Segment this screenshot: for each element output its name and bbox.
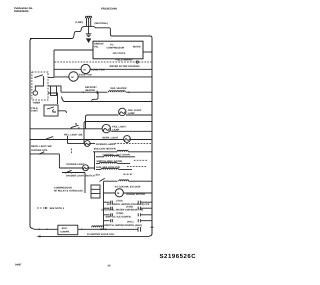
wire timer to defrost feeder bbox=[48, 86, 61, 92]
left bus wire bbox=[30, 39, 72, 229]
svg-text:TIMER: TIMER bbox=[33, 101, 41, 104]
dashed field wiring separator bbox=[55, 61, 137, 63]
wire cold control stub bbox=[58, 111, 66, 113]
svg-text:LAMP: LAMP bbox=[112, 128, 119, 131]
see note arrow bbox=[37, 207, 65, 210]
svg-text:5995396265: 5995396265 bbox=[14, 10, 29, 13]
svg-text:FRS26ZGHW: FRS26ZGHW bbox=[101, 8, 118, 11]
svg-text:(LINE): (LINE) bbox=[76, 21, 83, 24]
svg-text:WHITE: WHITE bbox=[133, 45, 141, 48]
svg-text:20: 20 bbox=[108, 265, 111, 268]
defrost heater row bbox=[61, 86, 152, 94]
dispenser master switch bbox=[100, 178, 105, 181]
svg-text:M: M bbox=[71, 76, 73, 79]
actuator row bbox=[104, 180, 153, 182]
heater coil cluster bbox=[96, 153, 148, 176]
wire evap fan row bbox=[48, 76, 152, 79]
svg-text:AUX.: AUX. bbox=[62, 227, 68, 230]
wire lamp feed vertical bbox=[86, 115, 88, 129]
svg-text:M: M bbox=[84, 68, 86, 71]
ground bbox=[86, 26, 92, 43]
divider lamp row bbox=[68, 143, 96, 145]
cold control box bbox=[31, 105, 58, 116]
divider light row bbox=[59, 167, 94, 169]
svg-text:ACTUATOR, ICE DISP.: ACTUATOR, ICE DISP. bbox=[115, 185, 141, 188]
svg-text:LAMP: LAMP bbox=[128, 112, 135, 115]
svg-text:MULLION HEATER: MULLION HEATER bbox=[94, 147, 116, 150]
node: vertical feeder x54 bbox=[53, 50, 55, 77]
svg-text:S2196526C: S2196526C bbox=[160, 253, 197, 260]
evaporator fan motor bbox=[69, 72, 78, 81]
timer contact bbox=[35, 75, 44, 79]
water valve coil bbox=[92, 226, 104, 228]
divider light switch row bbox=[62, 170, 85, 173]
svg-text:M: M bbox=[117, 192, 119, 195]
svg-text:W/ RELAY & OVERLOAD: W/ RELAY & OVERLOAD bbox=[54, 189, 83, 192]
divider light lamp bbox=[83, 165, 89, 171]
refr light switch bbox=[46, 137, 53, 139]
power cord plug bbox=[85, 16, 93, 26]
svg-text:EVAP. FAN: EVAP. FAN bbox=[79, 74, 92, 77]
bottom row 1 wire bbox=[33, 228, 139, 229]
freezer light switch bbox=[71, 124, 78, 128]
bottom row 2 wire bbox=[40, 235, 150, 237]
divider heater switch row bbox=[30, 153, 59, 155]
svg-text:(YEL): (YEL) bbox=[127, 220, 134, 223]
svg-text:SWITCH, ICE DISPEN.: SWITCH, ICE DISPEN. bbox=[106, 215, 132, 218]
svg-text:COMPR.: COMPR. bbox=[60, 230, 70, 233]
right bus wire bbox=[150, 39, 153, 236]
svg-text:HEATER: HEATER bbox=[85, 89, 95, 92]
svg-text:DEF. HEATER: DEF. HEATER bbox=[111, 87, 127, 90]
freezer light lamp row bbox=[87, 114, 152, 116]
divider lamp bbox=[84, 141, 90, 147]
svg-text:CONT.: CONT. bbox=[31, 110, 39, 113]
svg-text:AUGER MOTOR: AUGER MOTOR bbox=[126, 193, 145, 196]
freezer light lamp 2 bbox=[102, 124, 110, 132]
refr light lamp bbox=[124, 136, 131, 143]
node vertical x85 bbox=[84, 173, 86, 194]
node vertical x67.5 bbox=[67, 136, 69, 144]
wire defrost termination row bbox=[62, 97, 153, 102]
wire cond fan row bbox=[54, 68, 152, 70]
wire: plug left prong to left bus bbox=[30, 26, 85, 38]
svg-text:FIELD WIRING: FIELD WIRING bbox=[116, 59, 133, 62]
auger motor row bbox=[104, 192, 153, 194]
svg-text:115 VOLTS: 115 VOLTS bbox=[113, 52, 126, 55]
svg-text:REFR. LIGHT: REFR. LIGHT bbox=[103, 137, 119, 140]
wire: plug right prong to right bus bbox=[93, 26, 152, 39]
node vertical x94.5 bbox=[94, 152, 96, 170]
svg-text:04/97: 04/97 bbox=[15, 264, 22, 267]
dispenser feeder vertical bbox=[103, 182, 105, 230]
freezer light switch row bbox=[30, 129, 152, 132]
svg-text:SEE NOTE 3: SEE NOTE 3 bbox=[50, 207, 65, 210]
defrost thermostat bbox=[92, 92, 98, 101]
svg-text:SWITCH, WATER DISPEN. (BLK): SWITCH, WATER DISPEN. (BLK) bbox=[104, 224, 142, 227]
svg-text:S10: S10 bbox=[96, 174, 101, 177]
svg-text:1/4 WATER VALVE SOL.: 1/4 WATER VALVE SOL. bbox=[87, 233, 115, 236]
svg-text:(NEUTRAL): (NEUTRAL) bbox=[95, 22, 109, 25]
svg-text:COND. FAN: COND. FAN bbox=[91, 69, 105, 72]
svg-text:DIVIDER LIGHT SWITCH: DIVIDER LIGHT SWITCH bbox=[66, 175, 95, 178]
compressor box bbox=[93, 41, 143, 59]
node vertical x84 bbox=[83, 124, 85, 144]
svg-text:WATER FILTER HOUSING: WATER FILTER HOUSING bbox=[110, 65, 140, 68]
element near bus bbox=[138, 227, 154, 232]
wire timer lower to cold control bbox=[48, 93, 58, 104]
svg-text:DIVIDER HTR.: DIVIDER HTR. bbox=[31, 149, 48, 152]
aux compressor box bbox=[58, 225, 78, 235]
svg-text:DIVIDER LAMPS: DIVIDER LAMPS bbox=[96, 143, 116, 146]
freezer light lamp bbox=[119, 108, 126, 115]
svg-text:FRZ. LIGHT SW.: FRZ. LIGHT SW. bbox=[64, 134, 83, 137]
svg-text:DIVIDER LIGHT: DIVIDER LIGHT bbox=[67, 163, 86, 166]
wire into compressor box bbox=[54, 49, 93, 51]
relay box bbox=[91, 185, 100, 198]
timer aux component bbox=[51, 86, 57, 96]
node vertical x59.4 bbox=[58, 154, 60, 168]
wire compressor box to right bus bbox=[143, 51, 152, 53]
wire row y121.5 bbox=[84, 122, 152, 124]
svg-text:YEL: YEL bbox=[94, 45, 99, 48]
svg-text:COMPRESSOR: COMPRESSOR bbox=[107, 47, 125, 50]
energy saver dashed vertical bbox=[71, 149, 73, 155]
refr light switch row bbox=[30, 139, 152, 141]
svg-text:REFR. LIGHT SW.: REFR. LIGHT SW. bbox=[31, 145, 52, 148]
mullion heater row bbox=[93, 147, 152, 152]
condenser fan motor bbox=[81, 64, 90, 73]
defrost timer box bbox=[32, 72, 48, 104]
timer motor bbox=[33, 91, 37, 95]
